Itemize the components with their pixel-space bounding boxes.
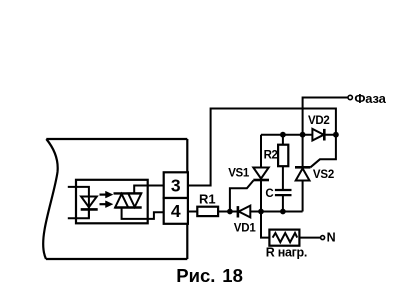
thyristor VS1 (253, 135, 268, 212)
svg-text:N: N (327, 231, 336, 245)
svg-text:R нагр.: R нагр. (266, 245, 307, 259)
triac MT2 lead to pin 3 (134, 186, 164, 194)
wire VD1 to node (250, 211, 261, 213)
wire R2 to C (282, 166, 284, 189)
capacitor C (275, 190, 292, 195)
load branch wire (261, 212, 269, 238)
svg-text:C: C (265, 188, 273, 200)
photo-triac left triangle (115, 194, 128, 208)
resistor R1 (197, 207, 218, 216)
light arrow lower (100, 201, 113, 208)
svg-text:R2: R2 (264, 150, 278, 162)
wire pin3 to VD2 cathode node (188, 109, 336, 186)
load resistor R нагр. (269, 230, 299, 246)
svg-text:R1: R1 (199, 191, 216, 206)
LED (emitter diode) (81, 197, 97, 208)
terminal Фаза (348, 95, 352, 99)
wire R1 to VD1 (218, 211, 238, 213)
svg-text:VD2: VD2 (308, 115, 329, 127)
photo-triac bottom bar (115, 206, 142, 208)
svg-text:Рис.: Рис. (176, 265, 215, 286)
wire pin4 to R1 (188, 211, 197, 213)
pin box 3 (164, 172, 188, 198)
diode VD1 (239, 206, 251, 218)
junction node C bottom (280, 209, 286, 215)
junction node VS1 cathode / load (258, 209, 264, 215)
terminal N (321, 236, 325, 240)
junction node VD2 cathode / gate (333, 132, 339, 138)
wire node to R2 (282, 135, 284, 145)
top rail wire (261, 134, 303, 136)
svg-text:18: 18 (222, 265, 243, 286)
svg-text:VS2: VS2 (313, 169, 334, 181)
device body box with torn left edge (43, 139, 187, 259)
triac MT1 lead to pin 4 (122, 208, 164, 219)
resistor R2 (278, 145, 288, 167)
LED anode lead stub (68, 187, 89, 197)
VS1 gate wire (230, 180, 254, 211)
wire to N terminal (299, 237, 320, 239)
photo-triac right triangle (128, 193, 141, 207)
svg-text:Фаза: Фаза (354, 91, 386, 106)
photo-triac top bar (114, 192, 142, 194)
junction node at R1/VD1 gate tap (227, 209, 233, 215)
LED cathode lead stub (68, 209, 89, 218)
pin box 4 (164, 198, 188, 224)
junction node VD2 anode / phase (300, 132, 306, 138)
optocoupler inner box (76, 180, 148, 224)
main bottom wire to VS2 leg (261, 211, 303, 213)
svg-text:VS1: VS1 (228, 168, 250, 180)
svg-text:VD1: VD1 (234, 222, 257, 234)
svg-text:4: 4 (171, 201, 181, 221)
VS2 gate wire (310, 135, 336, 168)
light arrow upper (100, 191, 113, 198)
wire C to bottom rail (282, 196, 284, 212)
diode VD2 (303, 129, 336, 141)
thyristor VS2 (296, 135, 310, 212)
junction node R2 top (280, 132, 286, 138)
svg-text:3: 3 (171, 176, 181, 196)
phase terminal wire (303, 98, 348, 135)
